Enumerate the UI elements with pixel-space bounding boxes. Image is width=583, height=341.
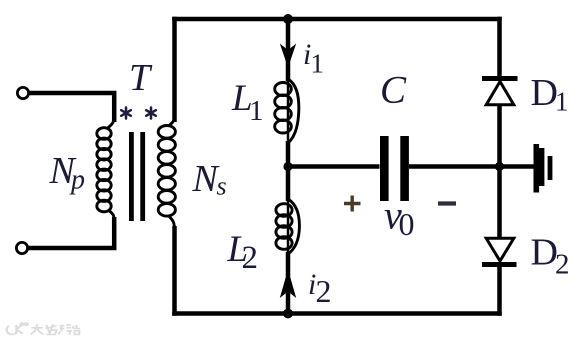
svg-text:p: p — [69, 165, 85, 196]
svg-text:2: 2 — [242, 240, 259, 276]
svg-text:s: s — [217, 171, 227, 200]
svg-text:2: 2 — [555, 249, 570, 281]
svg-text:D: D — [531, 72, 558, 114]
svg-text:D: D — [531, 232, 558, 274]
svg-text:T: T — [129, 57, 153, 99]
svg-text:2: 2 — [316, 273, 332, 309]
svg-text:1: 1 — [555, 87, 569, 117]
svg-text:1: 1 — [311, 49, 325, 79]
svg-text:1: 1 — [249, 95, 264, 127]
svg-text:0: 0 — [399, 206, 415, 242]
svg-text:C: C — [380, 69, 407, 112]
